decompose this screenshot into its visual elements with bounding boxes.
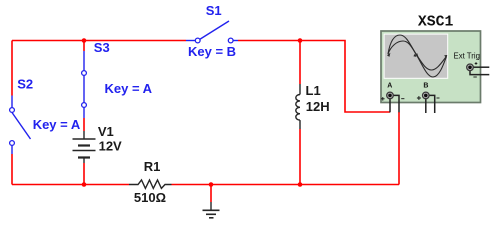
svg-text:Key = A: Key = A [33,117,81,132]
svg-text:S1: S1 [206,3,222,18]
svg-text:S3: S3 [94,40,110,55]
svg-text:Key = A: Key = A [105,81,153,96]
svg-text:Ext Trig: Ext Trig [454,51,480,60]
svg-text:XSC1: XSC1 [418,15,454,31]
svg-text:Key = B: Key = B [188,44,236,59]
svg-text:S2: S2 [17,76,33,91]
svg-text:B: B [423,83,428,90]
svg-text:L1: L1 [306,83,321,98]
svg-text:R1: R1 [144,159,161,174]
svg-text:A: A [387,83,392,90]
svg-text:510Ω: 510Ω [134,190,166,205]
svg-text:12V: 12V [99,139,122,154]
svg-text:V1: V1 [98,124,114,139]
svg-text:12H: 12H [306,99,330,114]
